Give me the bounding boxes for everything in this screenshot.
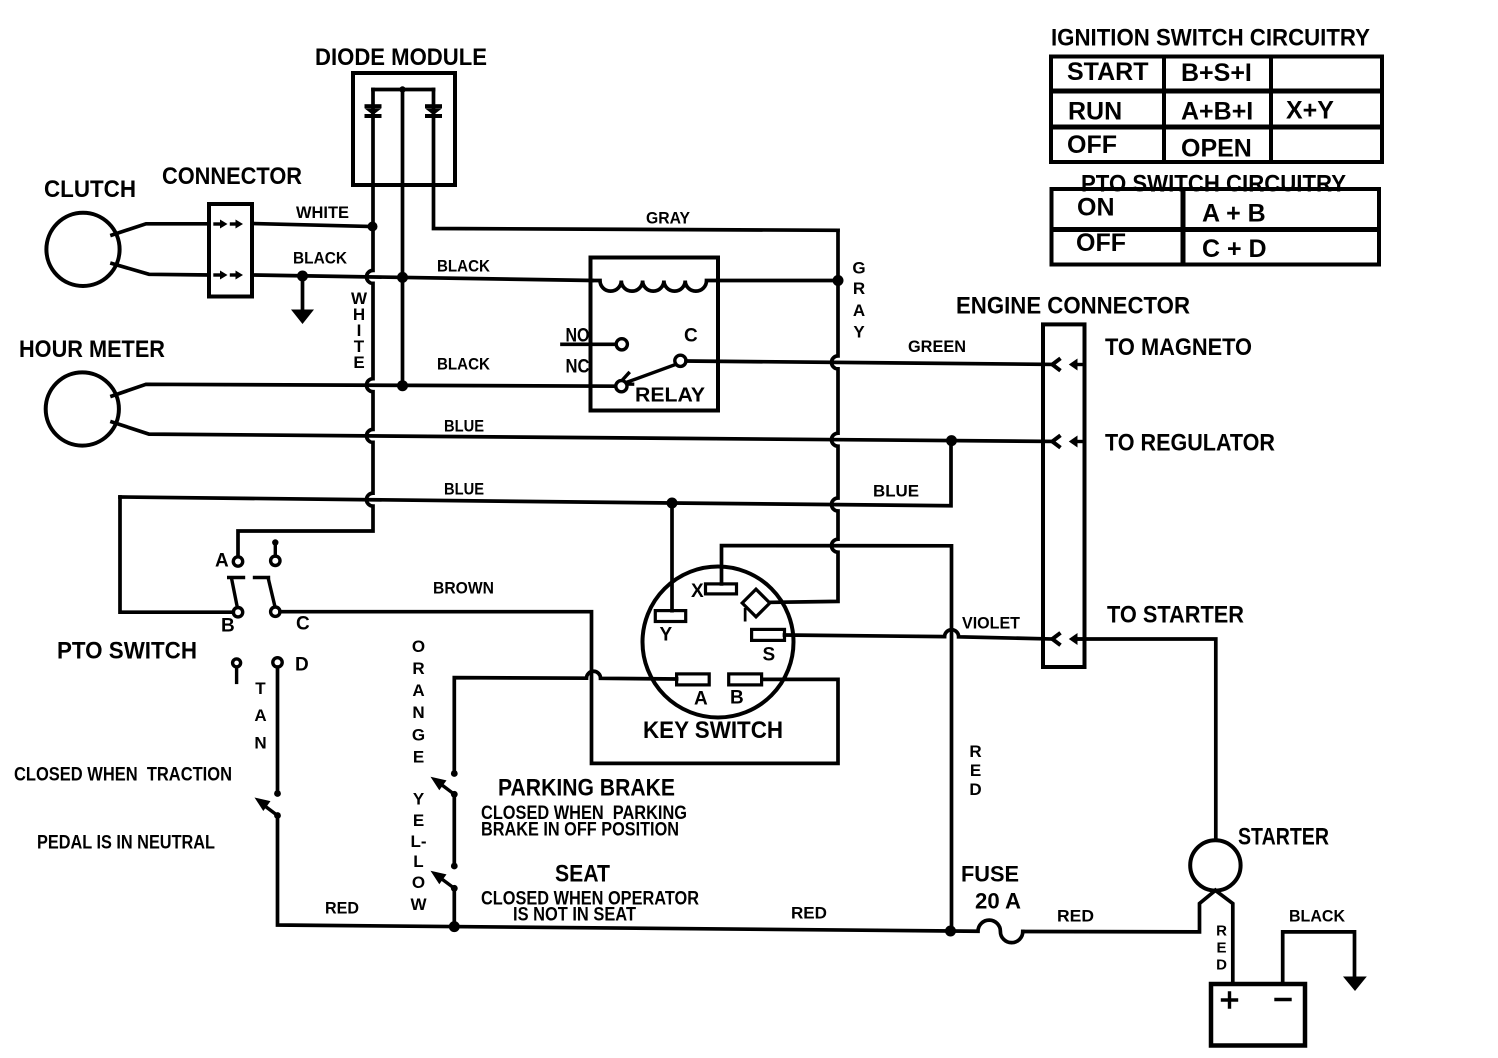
svg-text:BLACK: BLACK: [1289, 907, 1346, 926]
pto terminal (lower unlabeled pin): [233, 659, 241, 683]
key switch circle: [643, 567, 794, 718]
svg-text:E: E: [1216, 940, 1226, 957]
relay NO contact: [616, 339, 627, 350]
battery + terminal: [1223, 993, 1237, 1007]
engine connector pin arrows (magneto): [1052, 358, 1084, 370]
svg-text:NC: NC: [566, 357, 590, 378]
diode D2 (right): [425, 104, 442, 118]
svg-text:Y: Y: [413, 790, 425, 809]
engine connector pin arrows (starter): [1052, 633, 1084, 645]
node: diode bar junction: [399, 86, 405, 92]
svg-text:KEY SWITCH: KEY SWITCH: [643, 717, 783, 744]
svg-text:BLACK: BLACK: [437, 355, 491, 374]
relay box: [591, 258, 719, 411]
wire: Y riser (blue2 to key Y): [670, 503, 674, 611]
pto switch linkage (dashed): [229, 576, 269, 579]
svg-text:R: R: [853, 279, 865, 298]
pto terminal A: [233, 557, 242, 566]
svg-text:X: X: [691, 581, 704, 602]
wire: blue2 riser to pto B: [120, 497, 233, 612]
wire: seat switch to red bus: [452, 888, 456, 926]
wire clutch to connector (white): [112, 224, 209, 235]
relay coil: [592, 281, 838, 292]
svg-text:RED: RED: [325, 899, 359, 918]
svg-text:A: A: [694, 689, 708, 710]
wire BLACK: hour meter to relay NC: [112, 384, 616, 396]
node: seat chain / red bus junction: [449, 921, 460, 932]
svg-text:W: W: [410, 895, 427, 914]
svg-text:D: D: [295, 655, 309, 676]
svg-text:G: G: [412, 726, 425, 745]
wire ORANGE: key A to parking brake (with hop): [454, 671, 676, 772]
svg-text:BLUE: BLUE: [444, 417, 484, 436]
svg-text:IGNITION SWITCH CIRCUITRY: IGNITION SWITCH CIRCUITRY: [1051, 25, 1370, 52]
svg-text:RED: RED: [791, 904, 827, 923]
ignition switch circuitry table: [1051, 57, 1382, 163]
node: center line / black2 junction: [397, 380, 408, 391]
svg-text:I: I: [743, 606, 748, 627]
relay NC contact: [616, 381, 627, 392]
svg-text:CLOSED WHEN TRACTION: CLOSED WHEN TRACTION: [14, 765, 232, 786]
wire GRAY vertical with hops (to key switch I): [767, 230, 839, 602]
node: black/ground junction: [297, 271, 308, 282]
svg-text:DIODE MODULE: DIODE MODULE: [315, 44, 487, 71]
wire VIOLET: key S to engine connector (TO STARTER) with hop: [785, 630, 1053, 639]
pto blade A-B: [232, 579, 238, 608]
svg-text:RELAY: RELAY: [635, 385, 706, 407]
svg-text:C + D: C + D: [1202, 235, 1267, 263]
svg-text:R: R: [412, 659, 424, 678]
svg-text:D: D: [1216, 957, 1227, 974]
wire GRAY horizontal (diode to right): [434, 90, 839, 231]
traction pedal switch: [255, 790, 281, 819]
svg-text:O: O: [412, 873, 425, 892]
svg-text:E: E: [413, 811, 424, 830]
svg-text:A: A: [254, 706, 266, 725]
svg-text:T: T: [255, 679, 266, 698]
fuse element: [951, 920, 1023, 943]
node: blue1/blue2 riser junction: [946, 435, 957, 446]
pto terminal D: [273, 658, 282, 667]
connector pin pair at y=275: [215, 271, 243, 280]
pto terminal C: [271, 607, 280, 616]
wire: engine connector to starter: [1078, 639, 1216, 840]
svg-text:E: E: [413, 748, 424, 767]
pto terminal B: [233, 608, 242, 617]
diode D1 (left): [365, 104, 382, 118]
svg-text:O: O: [412, 637, 425, 656]
engine connector pin arrows (regulator): [1052, 435, 1084, 447]
relay armature blade with arrow: [619, 364, 676, 384]
svg-text:Y: Y: [853, 323, 865, 342]
wire BLUE2: PTO riser to blue1 riser: [120, 441, 951, 506]
wire RED bus: traction switch to fuse: [278, 816, 951, 932]
svg-text:D: D: [969, 780, 981, 799]
hour meter circle: [46, 372, 119, 445]
label Y E L- L O W (vertical): [410, 790, 427, 915]
label O R A N G E (vertical): [412, 637, 425, 767]
svg-text:20 A: 20 A: [975, 889, 1021, 914]
battery: [1211, 984, 1305, 1046]
svg-text:E: E: [353, 353, 364, 372]
svg-text:C: C: [296, 614, 310, 635]
connector box: [209, 204, 252, 297]
svg-text:TO MAGNETO: TO MAGNETO: [1105, 334, 1252, 361]
svg-text:VIOLET: VIOLET: [962, 614, 1021, 633]
svg-text:R: R: [1216, 923, 1227, 940]
svg-text:A: A: [215, 551, 229, 572]
pto switch circuitry table: [1052, 189, 1380, 265]
wire clutch to connector (black): [112, 264, 209, 276]
svg-text:B: B: [730, 688, 744, 709]
label G R A Y (vertical): [852, 259, 865, 342]
svg-text:RED: RED: [1057, 907, 1094, 926]
wire: diode anode bar: [373, 88, 434, 92]
svg-text:A: A: [853, 301, 865, 320]
key terminal S pad: [752, 629, 785, 640]
battery - terminal: [1276, 998, 1290, 1001]
connector pin pair at y=224: [215, 220, 243, 229]
svg-text:OFF: OFF: [1067, 131, 1117, 159]
svg-text:FUSE: FUSE: [961, 862, 1019, 887]
wire YELLOW: parking brake to seat switch: [452, 794, 456, 865]
wire TAN: pto D to traction switch: [276, 667, 280, 791]
wire: starter to battery positive: [1215, 890, 1232, 983]
svg-text:N: N: [254, 734, 266, 753]
starter circle: [1190, 840, 1240, 890]
svg-text:N: N: [412, 703, 424, 722]
svg-text:CLUTCH: CLUTCH: [44, 176, 136, 203]
key terminal Y pad: [655, 611, 685, 622]
wire: diode center line: [401, 90, 405, 386]
svg-text:ON: ON: [1077, 194, 1115, 222]
svg-text:WHITE: WHITE: [296, 203, 349, 222]
svg-text:PEDAL IS IN NEUTRAL: PEDAL IS IN NEUTRAL: [37, 833, 215, 854]
node: black/diode center line junction: [397, 272, 408, 283]
svg-text:GRAY: GRAY: [646, 209, 691, 228]
seat switch: [431, 863, 458, 892]
svg-text:BRAKE IN OFF POSITION: BRAKE IN OFF POSITION: [481, 820, 679, 841]
svg-text:BLACK: BLACK: [293, 249, 348, 268]
svg-text:BLUE: BLUE: [444, 480, 484, 499]
wire BLACK: connector to relay coil: [252, 275, 592, 281]
node: white/diode junction: [368, 222, 378, 232]
svg-text:X+Y: X+Y: [1286, 97, 1334, 125]
svg-text:B: B: [221, 616, 235, 637]
svg-text:G: G: [852, 259, 865, 278]
pto blade C: [268, 578, 275, 607]
wire BLUE1: hour meter to engine connector (TO REGULATOR): [112, 422, 1053, 441]
svg-text:HOUR METER: HOUR METER: [19, 336, 165, 363]
key terminal X pad: [706, 584, 737, 594]
diode module box: [353, 73, 455, 185]
svg-text:C: C: [684, 326, 698, 347]
svg-text:E: E: [970, 761, 981, 780]
svg-text:BROWN: BROWN: [433, 579, 494, 598]
svg-text:OFF: OFF: [1076, 229, 1126, 257]
wire: key X riser to fuse junction: [722, 546, 952, 931]
wire GREEN: relay C to engine connector (TO MAGNETO): [686, 361, 1053, 364]
wire BROWN: pto C to key switch B: [280, 612, 838, 764]
svg-text:GREEN: GREEN: [908, 337, 966, 356]
key terminal I pad (diamond): [742, 589, 770, 617]
label R E D (vertical, riser): [969, 742, 981, 799]
svg-text:Y: Y: [660, 625, 673, 646]
wire WHITE vertical (diode to PTO switch A) with hops: [238, 90, 373, 557]
wire RED: fuse to starter: [1023, 890, 1216, 932]
wire WHITE: connector to diode: [252, 224, 372, 227]
label R E D (vertical, battery): [1216, 923, 1227, 974]
node: blue2 / key Y riser junction: [667, 498, 678, 509]
svg-text:B+S+I: B+S+I: [1181, 59, 1252, 87]
svg-text:PARKING BRAKE: PARKING BRAKE: [498, 775, 675, 802]
engine connector box: [1043, 324, 1085, 667]
svg-text:TO REGULATOR: TO REGULATOR: [1105, 430, 1275, 457]
svg-text:L-: L-: [410, 832, 426, 851]
key terminal B pad: [729, 674, 762, 685]
svg-text:IS NOT IN SEAT: IS NOT IN SEAT: [513, 905, 636, 926]
node: fuse / riser junction: [945, 926, 956, 937]
svg-text:START: START: [1067, 58, 1148, 86]
svg-text:L: L: [413, 852, 423, 871]
pto terminal (upper unlabeled pin): [271, 539, 280, 565]
svg-text:STARTER: STARTER: [1238, 824, 1329, 851]
clutch coil circle: [46, 213, 119, 286]
relay NO stub wire: [562, 342, 616, 346]
parking brake switch: [431, 770, 458, 798]
svg-text:A: A: [412, 681, 424, 700]
node: gray/relay coil junction: [833, 275, 844, 286]
ground (battery): [1343, 977, 1367, 992]
svg-text:R: R: [969, 742, 981, 761]
svg-text:ENGINE CONNECTOR: ENGINE CONNECTOR: [956, 293, 1190, 320]
svg-text:SEAT: SEAT: [555, 861, 610, 888]
svg-text:A+B+I: A+B+I: [1181, 98, 1253, 126]
svg-text:OPEN: OPEN: [1181, 135, 1252, 163]
key terminal A pad: [677, 674, 710, 685]
svg-text:CONNECTOR: CONNECTOR: [162, 163, 302, 190]
svg-text:RUN: RUN: [1068, 98, 1122, 126]
relay C contact: [675, 355, 686, 366]
svg-text:PTO SWITCH CIRCUITRY: PTO SWITCH CIRCUITRY: [1081, 171, 1346, 198]
svg-text:S: S: [763, 645, 776, 666]
svg-text:A + B: A + B: [1202, 200, 1266, 228]
ground (chassis, left): [291, 276, 314, 324]
svg-text:PTO SWITCH: PTO SWITCH: [57, 638, 197, 665]
svg-text:BLUE: BLUE: [873, 482, 919, 501]
label T A N (vertical): [254, 679, 266, 753]
label W H I T E (vertical): [351, 289, 368, 372]
wire BLACK: battery negative to ground: [1283, 932, 1355, 984]
svg-text:TO STARTER: TO STARTER: [1107, 602, 1244, 629]
svg-text:BLACK: BLACK: [437, 257, 491, 276]
